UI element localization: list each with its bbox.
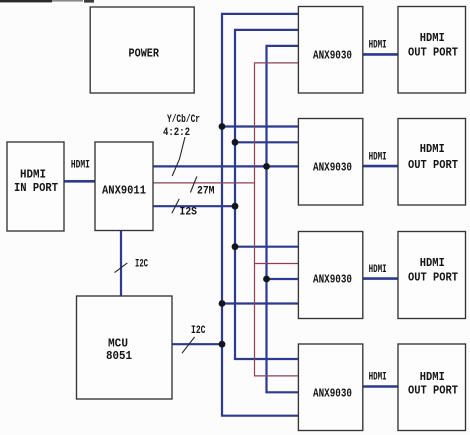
wire HDMI out 1: ANX9030#1 to HDMI OUT PORT#1: [363, 53, 398, 56]
wire branch bus A to ANX9030#2: [222, 125, 298, 127]
bus-width slash on I2S wire: [172, 199, 179, 213]
cropped caption text top-left: [0, 0, 94, 3]
block POWER: [90, 7, 194, 93]
svg-text:I2S: I2S: [180, 207, 198, 219]
svg-text:8051: 8051: [106, 349, 132, 363]
block ANX9030 #4: [298, 344, 362, 431]
bus-width slash on 27M wire: [190, 177, 196, 193]
block HDMI OUT PORT #2: [398, 119, 466, 206]
wire 27M: ANX9011 to clock bus: [153, 182, 255, 184]
junction dot bus B / ANX9030#2 branch: [232, 139, 239, 146]
block MCU 8051: [77, 296, 173, 399]
svg-text:HDMI: HDMI: [420, 31, 445, 45]
svg-text:HDMI: HDMI: [20, 167, 46, 181]
block ANX9030 #1: [298, 7, 362, 94]
wire I2S: ANX9011 to bus B: [153, 205, 235, 207]
wire branch bus C to ANX9030#3: [267, 278, 299, 280]
svg-text:HDMI: HDMI: [420, 142, 445, 156]
junction dot bus C / ANX9030#3 branch: [263, 276, 270, 283]
svg-text:HDMI: HDMI: [369, 40, 387, 52]
wire branch bus B to ANX9030#2: [235, 141, 298, 143]
svg-text:IN PORT: IN PORT: [14, 181, 58, 195]
svg-text:OUT PORT: OUT PORT: [408, 384, 458, 398]
wire bus C (Y/Cb/Cr video) with top branch to ANX9030#1 and bottom branch to ANX9030#4: [267, 46, 299, 392]
svg-text:I2C: I2C: [191, 325, 206, 337]
svg-text:OUT PORT: OUT PORT: [408, 46, 458, 60]
svg-text:POWER: POWER: [129, 47, 160, 61]
svg-text:Y/Cb/Cr: Y/Cb/Cr: [167, 114, 200, 126]
svg-text:ANX9030: ANX9030: [313, 48, 352, 62]
block ANX9030 #2: [298, 119, 362, 206]
svg-text:HDMI: HDMI: [369, 264, 387, 276]
block ANX9011 U1: [95, 142, 153, 231]
block HDMI OUT PORT #4: [398, 344, 466, 431]
svg-text:27M: 27M: [197, 186, 215, 198]
wire HDMI out 4: ANX9030#4 to HDMI OUT PORT#4: [363, 385, 398, 388]
block HDMI OUT PORT #1: [398, 7, 466, 94]
junction dot bus B / I2S input: [232, 203, 239, 210]
wire maroon 27M clock bus with top branch to ANX9030#1: [255, 63, 299, 376]
bus-width slash on MCU I2C wire: [182, 337, 195, 353]
svg-text:HDMI: HDMI: [420, 256, 445, 270]
svg-text:I2C: I2C: [135, 258, 148, 270]
block HDMI OUT PORT #3: [398, 232, 466, 319]
junction dot bus A / MCU I2C: [219, 341, 226, 348]
wire I2C horizontal: MCU to bus A: [172, 343, 222, 345]
wire bus A (I2C) with top branch to ANX9030#1 and bottom branch to ANX9030#4: [222, 14, 298, 416]
wire HDMI in: HDMI IN PORT to ANX9011: [64, 180, 95, 183]
svg-text:ANX9030: ANX9030: [313, 160, 352, 174]
svg-text:HDMI: HDMI: [71, 160, 90, 172]
junction dot bus A / ANX9030#2 branch: [219, 123, 226, 130]
junction dot bus A / ANX9030#3 branch: [219, 300, 226, 307]
wire branch 27M bus to ANX9030#3: [255, 263, 299, 265]
svg-text:ANX9030: ANX9030: [313, 273, 352, 287]
wire bus B (I2S) with top branch to ANX9030#1 and bottom branch to ANX9030#4: [235, 30, 298, 359]
block HDMI IN PORT: [7, 142, 64, 231]
wire Y/Cb/Cr: ANX9011 through to ANX9030#2: [153, 165, 298, 167]
svg-text:HDMI: HDMI: [420, 370, 445, 384]
svg-text:ANX9011: ANX9011: [102, 183, 146, 197]
svg-text:HDMI: HDMI: [369, 372, 387, 384]
wire branch bus A to ANX9030#3: [222, 302, 298, 304]
junction dot bus C / Y-Cb-Cr input: [263, 163, 270, 170]
svg-text:4:2:2: 4:2:2: [163, 127, 190, 139]
svg-text:HDMI: HDMI: [369, 151, 387, 163]
wire HDMI out 2: ANX9030#2 to HDMI OUT PORT#2: [363, 165, 398, 168]
wire HDMI out 3: ANX9030#3 to HDMI OUT PORT#3: [363, 277, 398, 280]
junction dot bus B / ANX9030#3 branch: [232, 243, 239, 250]
bus-width slash on vertical I2C wire: [115, 263, 128, 273]
svg-text:ANX9030: ANX9030: [313, 386, 352, 400]
callout line and bus-width slash on Y/Cb/Cr wire: [172, 137, 185, 176]
wire branch bus B to ANX9030#3: [235, 246, 298, 248]
block ANX9030 #3: [298, 232, 362, 319]
svg-text:OUT PORT: OUT PORT: [408, 270, 458, 284]
wire I2C vertical: ANX9011 to MCU: [120, 231, 122, 297]
svg-text:OUT PORT: OUT PORT: [408, 158, 458, 172]
